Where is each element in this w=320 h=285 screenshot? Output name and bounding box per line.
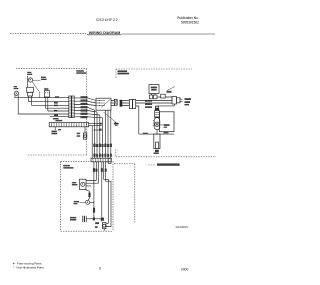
connector bar J2: [72, 96, 74, 118]
wires into freezer switch: [86, 181, 98, 186]
ground clip: [154, 150, 159, 154]
label POWER CORD: [185, 98, 192, 105]
freezer compartment dashed box bottom: [61, 230, 113, 232]
harness label column right: [81, 96, 88, 118]
freezer compartment dashed box right: [112, 161, 114, 231]
label BLU: [54, 110, 57, 111]
freezer compartment dashed box left: [60, 161, 62, 231]
wires connector to plug: [136, 101, 172, 104]
svg-text:5995391562: 5995391562: [181, 20, 199, 24]
wires to inline connector: [122, 101, 129, 106]
defrost thermostat S1: [103, 223, 107, 229]
svg-text:WIRING DIAGRAM: WIRING DIAGRAM: [89, 31, 121, 35]
ground symbol diagonal: [104, 112, 117, 123]
fresh food compartment dashed boundary top: [16, 68, 87, 70]
wire FF lamp leads: [15, 95, 18, 114]
fresh food compartment dashed boundary bottom: [28, 154, 87, 156]
svg-text:Publication No.: Publication No.: [177, 16, 199, 20]
label COMPRESSOR: [160, 124, 170, 128]
strip A labels below: [77, 133, 81, 137]
label FRESH FOOD COMPARTMENT: [76, 70, 86, 74]
freezer light L2: [86, 200, 94, 204]
heater junction 2: [101, 218, 104, 221]
defrost heater R1: [83, 216, 102, 222]
freezer wire drops jogged: [104, 162, 111, 227]
label freezer door switch: [72, 182, 78, 185]
freezer door switch SW2: [79, 179, 86, 189]
fresh food compartment dashed boundary right: [86, 69, 88, 155]
footnote machine compartment area: [145, 163, 179, 166]
wire row 5: [48, 97, 69, 111]
connector bar J1: [69, 96, 71, 118]
terminal block: [157, 94, 165, 98]
wire bottom run: [139, 133, 174, 135]
svg-text:6: 6: [99, 266, 101, 270]
svg-text:GS24HFZ2: GS24HFZ2: [96, 18, 118, 22]
wire diagonal door switch down: [32, 82, 40, 98]
label ORG: [54, 105, 58, 106]
recessed controls dashed boundary: [116, 69, 192, 78]
label GRN on bottom run: [164, 132, 169, 133]
label RECESSED CONTROLS: [118, 70, 130, 74]
strip B wire labels above: [93, 154, 112, 157]
wires labels to control box: [88, 98, 97, 106]
diagram number 24C26001: [176, 225, 189, 229]
freezer compartment dashed box top: [61, 160, 91, 162]
cold control box U1: [96, 98, 111, 110]
label BLK: [54, 114, 58, 116]
wire row 6: [18, 113, 69, 115]
inline connector P2: [114, 99, 117, 105]
cabinet harness connector strip B: [91, 158, 111, 163]
freezer wire labels: [93, 168, 107, 172]
header publication number: [177, 16, 199, 25]
header model number GS24HFZ2: [96, 18, 118, 22]
wire terminal block to plug: [165, 97, 172, 101]
label 3 BLK: [55, 96, 59, 97]
door switch SW1: [28, 78, 32, 82]
fan motor terminals: [150, 94, 158, 99]
label defrost thermostat: [95, 222, 99, 228]
wire row 2: [29, 96, 69, 102]
svg-text:0900: 0900: [181, 267, 189, 271]
wire labels right of connector: [145, 100, 152, 108]
inline connector P4: [129, 99, 135, 108]
wire plug return: [157, 104, 174, 106]
thermostat bottom stub: [103, 229, 105, 231]
machine compartment dashed rule: [116, 150, 216, 157]
wires bar to labels: [74, 98, 80, 117]
perforation dotted rule left: [10, 33, 86, 35]
label fresh food light: [14, 86, 19, 89]
svg-text:* - Non-Illustrated Parts: * - Non-Illustrated Parts: [13, 266, 45, 270]
wire row 1: [15, 97, 69, 99]
wires labels to bundle: [88, 107, 103, 117]
wire compressor to bottom run: [156, 130, 158, 135]
wire row 7: [50, 116, 69, 118]
compressor motor C1: [153, 118, 160, 130]
label FREEZER COMPARTMENT: [63, 165, 73, 169]
label BLK on bottom run: [143, 133, 148, 134]
freezer light wire label: [93, 208, 95, 213]
switch bottom label: [88, 193, 90, 197]
title WIRING DIAGRAM: [87, 31, 121, 35]
label BRN: [54, 102, 58, 103]
inline connector P3 dark: [120, 100, 123, 107]
footer page number: [99, 266, 101, 270]
switch bottom wire: [85, 189, 90, 200]
strip A ground stub: [52, 127, 62, 135]
svg-text:*: *: [145, 165, 146, 167]
label door switch pointer: [33, 77, 47, 81]
footer legend: [13, 262, 45, 270]
perforation dotted rule right: [121, 33, 215, 35]
compressor box: [160, 112, 175, 132]
wire bundle vertical: [95, 110, 111, 158]
connector block right: [44, 88, 49, 97]
condenser fan motor M1: [149, 85, 159, 94]
machine compartment dashed corner: [114, 164, 135, 223]
wire row 3: [32, 96, 69, 105]
ground symbol: [114, 123, 119, 126]
wire row 4: [45, 97, 69, 108]
fresh food light L1: [14, 91, 18, 95]
bundle wire labels mid: [93, 144, 112, 147]
power cord strain relief: [154, 134, 160, 149]
label grd pointer: [167, 87, 176, 93]
svg-text:24C26001: 24C26001: [176, 225, 189, 229]
lamp holder block: [27, 76, 34, 96]
strip A drain component: [83, 127, 86, 139]
label door switch (above): [27, 72, 32, 75]
cabinet harness connector strip A: [49, 123, 88, 127]
footer date code: [181, 267, 189, 271]
power plug P1: [172, 97, 182, 104]
wires control box to bowtie connector: [111, 101, 115, 106]
heater junction: [93, 217, 95, 220]
label defrost heater: [70, 217, 76, 221]
strip A wires right: [89, 123, 102, 159]
start relay overload stack: [155, 106, 160, 117]
label freezer light: [74, 201, 85, 204]
label cabinet harness: [53, 118, 63, 121]
freezer wire drops: [94, 162, 102, 222]
wire neutral drop: [136, 106, 139, 134]
